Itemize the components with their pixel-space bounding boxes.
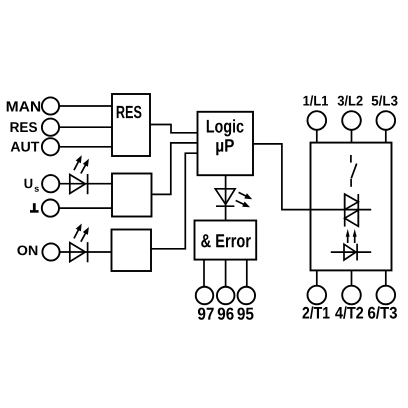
terminal MAN — [7, 97, 59, 114]
wire RES to RES box — [59, 126, 112, 128]
block supply input U3 — [112, 174, 152, 217]
wire input block to Logic µP — [152, 143, 198, 195]
terminal 96 — [217, 287, 235, 320]
terminal 1/L1 — [303, 95, 328, 129]
terminal GND (common) — [30, 200, 59, 217]
wire output block to 4/T2 — [351, 270, 353, 285]
output power block U6 — [311, 143, 392, 271]
LED D1 (Us indicator) — [70, 155, 89, 194]
wire Logic µP to output block (triac gate) — [253, 144, 371, 210]
LED D2 (ON indicator) — [70, 224, 89, 263]
wire ON block to Logic µP — [151, 153, 198, 249]
LED D3 (status, emitting down-right) — [215, 189, 252, 208]
wire RES box to Logic µP — [150, 125, 198, 133]
optocoupler LED D4 (emitting up to triac) — [331, 229, 371, 261]
terminal 5/L3 — [372, 95, 398, 129]
terminal 4/T2 — [335, 286, 363, 319]
wire & Error to terminal 95 — [246, 260, 248, 287]
terminal 95 — [237, 287, 255, 320]
wire & Error to terminal 97 — [203, 260, 205, 287]
terminal AUT — [11, 138, 59, 155]
block ON input U4 — [112, 230, 152, 272]
wire Us to input block through LED D1 — [60, 183, 113, 185]
wire 1/L1 to output block — [316, 130, 318, 143]
terminal ON — [17, 243, 59, 260]
wire GND to input block — [59, 207, 112, 209]
wire output block to 2/T1 — [316, 270, 318, 285]
wire ON to ON block through LED D2 — [60, 251, 112, 253]
wire 3/L2 to output block — [351, 130, 353, 143]
op-amp/logic block U1 Logic µP — [198, 112, 254, 175]
terminal 2/T1 — [303, 286, 330, 319]
block RES U2 — [112, 94, 150, 156]
terminal 6/T3 — [368, 286, 397, 319]
terminal 3/L2 — [338, 95, 363, 129]
wire & Error to terminal 96 — [225, 260, 227, 287]
wire MAN to RES box — [59, 105, 112, 107]
wire Logic µP to & Error block — [225, 175, 227, 220]
switch contact S1 — [351, 155, 357, 187]
terminal Us — [25, 175, 60, 192]
wire output block to 6/T3 — [385, 270, 387, 285]
triac Q1 — [345, 194, 359, 227]
wire 5/L3 to output block — [385, 130, 387, 143]
wire AUT to RES box — [59, 146, 112, 148]
block & Error U5 — [195, 221, 257, 260]
terminal 97 — [196, 287, 214, 320]
terminal RES — [11, 119, 60, 136]
